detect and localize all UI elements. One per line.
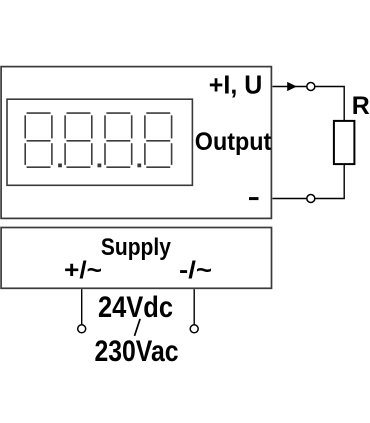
svg-text:Output: Output [195, 128, 272, 156]
svg-text:24Vdc: 24Vdc [98, 291, 173, 324]
svg-text:-/~: -/~ [179, 257, 212, 284]
svg-text:230Vac: 230Vac [95, 335, 179, 368]
svg-text:R: R [352, 92, 370, 120]
svg-text:Supply: Supply [101, 234, 171, 261]
svg-text:+I, U: +I, U [209, 69, 262, 99]
svg-text:+/~: +/~ [64, 257, 102, 284]
